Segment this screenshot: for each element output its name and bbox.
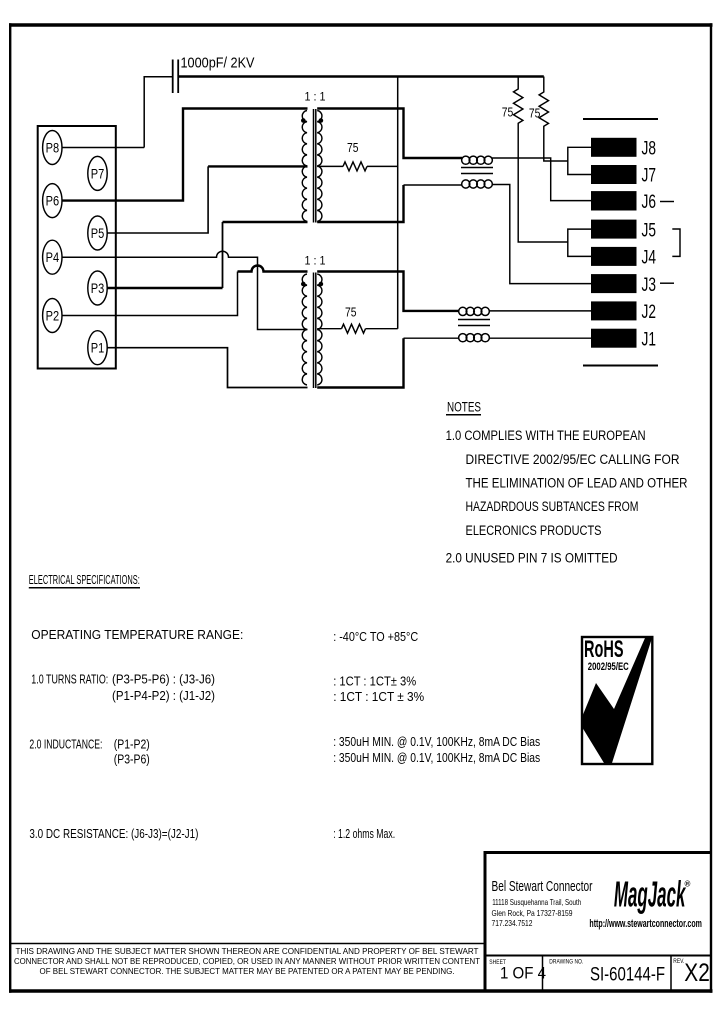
svg-text:REV.: REV. bbox=[673, 959, 684, 965]
svg-text:J5: J5 bbox=[642, 219, 657, 241]
svg-text:: 1.2 ohms Max.: : 1.2 ohms Max. bbox=[333, 826, 395, 841]
transformer T1 core bbox=[314, 109, 316, 223]
svg-text:75: 75 bbox=[502, 105, 514, 120]
transformer T2 core bbox=[314, 273, 316, 389]
svg-text:J3: J3 bbox=[642, 274, 657, 296]
title block legal box bbox=[10, 943, 485, 945]
wire T2 center tap stub bbox=[317, 328, 341, 330]
svg-text:RoHS: RoHS bbox=[584, 636, 624, 663]
wire P2 to T2 primary top with hop bbox=[62, 272, 238, 316]
svg-text:DIRECTIVE 2002/95/EC CALLING F: DIRECTIVE 2002/95/EC CALLING FOR bbox=[466, 452, 680, 467]
connector P1 box bbox=[38, 126, 116, 369]
wire P5 to T1 primary center tap bbox=[107, 166, 208, 233]
svg-text:CONNECTOR AND SHALL NOT BE REP: CONNECTOR AND SHALL NOT BE REPRODUCED, C… bbox=[14, 956, 480, 966]
svg-text:P5: P5 bbox=[91, 225, 105, 241]
svg-text:: 1CT : 1CT± 3%: : 1CT : 1CT± 3% bbox=[333, 674, 416, 689]
svg-text:(P1-P2): (P1-P2) bbox=[114, 736, 150, 751]
transformer T2 secondary winding bbox=[317, 274, 322, 385]
pin P5 bbox=[88, 216, 107, 250]
wire T2 bottom to choke L2 lower bbox=[404, 337, 460, 339]
wire R4 to cap node bbox=[366, 328, 398, 330]
svg-text:ELECRONICS PRODUCTS: ELECRONICS PRODUCTS bbox=[466, 523, 602, 538]
svg-text:P2: P2 bbox=[46, 308, 60, 324]
wire T1 bottom to choke L1 lower bbox=[404, 184, 463, 186]
annotation dash J3 bbox=[660, 282, 674, 284]
svg-text:J7: J7 bbox=[642, 165, 657, 187]
svg-text:THE ELIMINATION OF LEAD AND OT: THE ELIMINATION OF LEAD AND OTHER bbox=[466, 476, 688, 491]
svg-text:J1: J1 bbox=[642, 328, 657, 350]
pin P4 bbox=[43, 240, 62, 274]
svg-text:Glen Rock, Pa 17327-8159: Glen Rock, Pa 17327-8159 bbox=[492, 908, 573, 918]
svg-text:NOTES: NOTES bbox=[447, 400, 481, 415]
contact J5 bbox=[591, 220, 637, 239]
svg-text:11118 Susquehanna Trail, South: 11118 Susquehanna Trail, South bbox=[492, 897, 581, 907]
wire choke L2 top to J2 bbox=[489, 310, 591, 312]
choke L2 bottom coil bbox=[459, 334, 490, 342]
svg-text:3.0 DC RESISTANCE: (J6-J3)=(J2: 3.0 DC RESISTANCE: (J6-J3)=(J2-J1) bbox=[29, 826, 198, 841]
svg-text:OF BEL STEWART CONNECTOR. THE: OF BEL STEWART CONNECTOR. THE SUBJECT MA… bbox=[40, 966, 455, 976]
RoHS checkmark bbox=[582, 638, 652, 763]
resistor R3 75 zigzag bbox=[343, 162, 367, 171]
contact J7 bbox=[591, 165, 637, 184]
choke L2 top coil bbox=[459, 307, 490, 315]
contact J8 bbox=[591, 138, 637, 157]
capacitor C1 plates bbox=[173, 60, 179, 94]
svg-text:P8: P8 bbox=[46, 140, 60, 156]
resistor R2 vertical zigzag bbox=[539, 77, 568, 162]
transformer T1 primary winding bbox=[302, 111, 307, 222]
pin P8 bbox=[43, 131, 62, 165]
transformer T1 polarity dots bbox=[301, 118, 306, 123]
svg-text:2002/95/EC: 2002/95/EC bbox=[588, 661, 629, 673]
wire T1 secondary bottom bbox=[317, 185, 403, 222]
svg-text:J2: J2 bbox=[642, 301, 657, 323]
wire P4 to T2 center tap with hop bbox=[62, 251, 308, 329]
svg-text:: 350uH MIN. @ 0.1V, 100KHz, 8: : 350uH MIN. @ 0.1V, 100KHz, 8mA DC Bias bbox=[333, 750, 540, 765]
svg-text:MagJack: MagJack bbox=[614, 874, 686, 915]
svg-text:J8: J8 bbox=[642, 138, 657, 160]
bracket J8 J7 bbox=[568, 147, 591, 174]
pin P2 bbox=[43, 299, 62, 333]
title block frame bbox=[485, 851, 712, 991]
svg-text:J4: J4 bbox=[642, 247, 657, 269]
annotation bracket J5 J4 bbox=[672, 229, 680, 256]
resistor R4 75 zigzag bbox=[342, 324, 366, 333]
wire P1 to T2 primary bottom bbox=[107, 348, 308, 388]
svg-text:ELECTRICAL SPECIFICATIONS:: ELECTRICAL SPECIFICATIONS: bbox=[29, 572, 140, 587]
wire T2 secondary top to choke L2 bbox=[317, 272, 459, 311]
pin P7 bbox=[88, 156, 107, 190]
transformer T1 secondary winding bbox=[317, 111, 322, 222]
wire cap top net bbox=[178, 75, 544, 77]
wire P6 to T1 primary top bbox=[62, 109, 308, 201]
svg-text:(P3-P5-P6) : (J3-J6): (P3-P5-P6) : (J3-J6) bbox=[112, 672, 215, 687]
choke L1 top coil bbox=[462, 156, 493, 164]
svg-text:Bel Stewart Connector: Bel Stewart Connector bbox=[492, 878, 593, 895]
svg-text:HAZADRDOUS SUBTANCES FROM: HAZADRDOUS SUBTANCES FROM bbox=[466, 499, 639, 514]
pin P3 bbox=[88, 271, 107, 305]
pin P1 bbox=[88, 331, 107, 365]
svg-text:THIS DRAWING AND THE SUBJECT M: THIS DRAWING AND THE SUBJECT MATTER SHOW… bbox=[16, 946, 479, 956]
svg-text:1.0 TURNS RATIO:: 1.0 TURNS RATIO: bbox=[31, 672, 108, 687]
svg-text:: 1CT : 1CT ± 3%: : 1CT : 1CT ± 3% bbox=[333, 689, 424, 704]
svg-text:(P3-P6): (P3-P6) bbox=[114, 752, 150, 767]
wire R3 to cap node bbox=[367, 165, 398, 167]
wire T1 secondary top to choke L1 bbox=[317, 109, 462, 159]
svg-text:1000pF/ 2KV: 1000pF/ 2KV bbox=[181, 55, 255, 72]
transformer T2 primary winding bbox=[302, 274, 307, 385]
wire T2 secondary bottom bbox=[317, 338, 403, 387]
pin P6 bbox=[43, 184, 62, 218]
choke L1 bottom coil bbox=[462, 180, 493, 188]
choke L1 core bbox=[461, 168, 493, 174]
transformer T2 polarity dots bbox=[301, 282, 306, 287]
svg-text:P7: P7 bbox=[91, 165, 105, 181]
contact J2 bbox=[591, 301, 637, 320]
svg-text:: 350uH MIN. @ 0.1V, 100KHz, 8: : 350uH MIN. @ 0.1V, 100KHz, 8mA DC Bias bbox=[333, 734, 540, 749]
svg-text:SI-60144-F: SI-60144-F bbox=[590, 964, 665, 986]
wire choke L1 top to J6 bbox=[492, 158, 591, 201]
capacitor C1 wire left bbox=[144, 77, 172, 148]
svg-text:OPERATING TEMPERATURE RANGE:: OPERATING TEMPERATURE RANGE: bbox=[31, 627, 243, 642]
wire P8 to cap net bbox=[62, 147, 144, 149]
svg-text:X2: X2 bbox=[684, 959, 710, 987]
wire T1 center tap stub bbox=[317, 165, 343, 167]
contact J1 bbox=[591, 329, 637, 348]
svg-text:1 : 1: 1 : 1 bbox=[305, 90, 326, 104]
svg-text:1 OF 4: 1 OF 4 bbox=[500, 965, 546, 983]
contact J3 bbox=[591, 274, 637, 293]
contact J6 bbox=[591, 191, 637, 210]
svg-text:(P1-P4-P2) : (J1-J2): (P1-P4-P2) : (J1-J2) bbox=[112, 688, 215, 703]
svg-text:1.0 COMPLIES WITH THE EUROPEAN: 1.0 COMPLIES WITH THE EUROPEAN bbox=[446, 428, 646, 443]
connector outline line above J8 bbox=[583, 118, 658, 120]
svg-text:P4: P4 bbox=[46, 249, 60, 265]
bracket J5 J4 bbox=[568, 229, 591, 256]
svg-text:®: ® bbox=[685, 880, 691, 889]
connector outline line below J1 bbox=[583, 365, 658, 367]
svg-text:717.234.7512: 717.234.7512 bbox=[492, 918, 533, 928]
svg-text:J6: J6 bbox=[642, 191, 657, 213]
svg-text:P1: P1 bbox=[91, 340, 105, 356]
svg-text:2.0 INDUCTANCE:: 2.0 INDUCTANCE: bbox=[29, 736, 102, 751]
svg-text:: -40°C TO +85°C: : -40°C TO +85°C bbox=[333, 629, 418, 644]
resistor R1 vertical zigzag bbox=[514, 77, 568, 243]
svg-text:1 : 1: 1 : 1 bbox=[305, 253, 326, 267]
svg-text:http://www.stewartconnector.co: http://www.stewartconnector.com bbox=[589, 918, 702, 930]
annotation dash J6 bbox=[660, 201, 674, 203]
svg-text:P6: P6 bbox=[46, 193, 60, 209]
wire choke L1 bottom to J3 bbox=[492, 185, 591, 284]
svg-text:75: 75 bbox=[345, 305, 357, 320]
choke L2 core bbox=[458, 320, 490, 326]
svg-text:75: 75 bbox=[347, 140, 359, 155]
wire P3 to T1 primary bottom bbox=[107, 287, 223, 289]
RoHS logo box bbox=[582, 637, 652, 764]
svg-text:2.0 UNUSED PIN 7 IS OMITTED: 2.0 UNUSED PIN 7 IS OMITTED bbox=[446, 551, 618, 566]
wire cap net vertical node bbox=[397, 77, 399, 329]
wire choke L2 bottom to J1 bbox=[489, 337, 591, 339]
contact J4 bbox=[591, 247, 637, 266]
svg-text:DRAWING NO.: DRAWING NO. bbox=[549, 960, 583, 966]
svg-text:P3: P3 bbox=[91, 280, 105, 296]
